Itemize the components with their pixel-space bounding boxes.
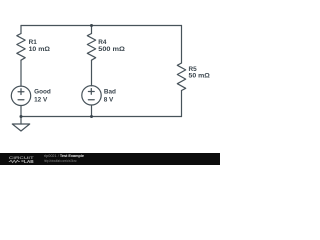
svg-text:Bad: Bad <box>104 89 116 96</box>
svg-text:8 V: 8 V <box>104 96 114 103</box>
svg-text:R1: R1 <box>29 39 38 46</box>
svg-text:500 mΩ: 500 mΩ <box>98 46 125 53</box>
svg-text:R4: R4 <box>98 39 107 46</box>
svg-text:http://circuitlab.com/c/e24xw: http://circuitlab.com/c/e24xw <box>44 159 77 163</box>
svg-text:10 mΩ: 10 mΩ <box>29 46 50 53</box>
svg-text:12 V: 12 V <box>34 96 48 103</box>
svg-text:rlp0021 / Test Example: rlp0021 / Test Example <box>44 153 85 158</box>
svg-text:Good: Good <box>34 89 51 96</box>
svg-text:=LAB: =LAB <box>21 159 34 164</box>
svg-text:50 mΩ: 50 mΩ <box>189 73 210 80</box>
